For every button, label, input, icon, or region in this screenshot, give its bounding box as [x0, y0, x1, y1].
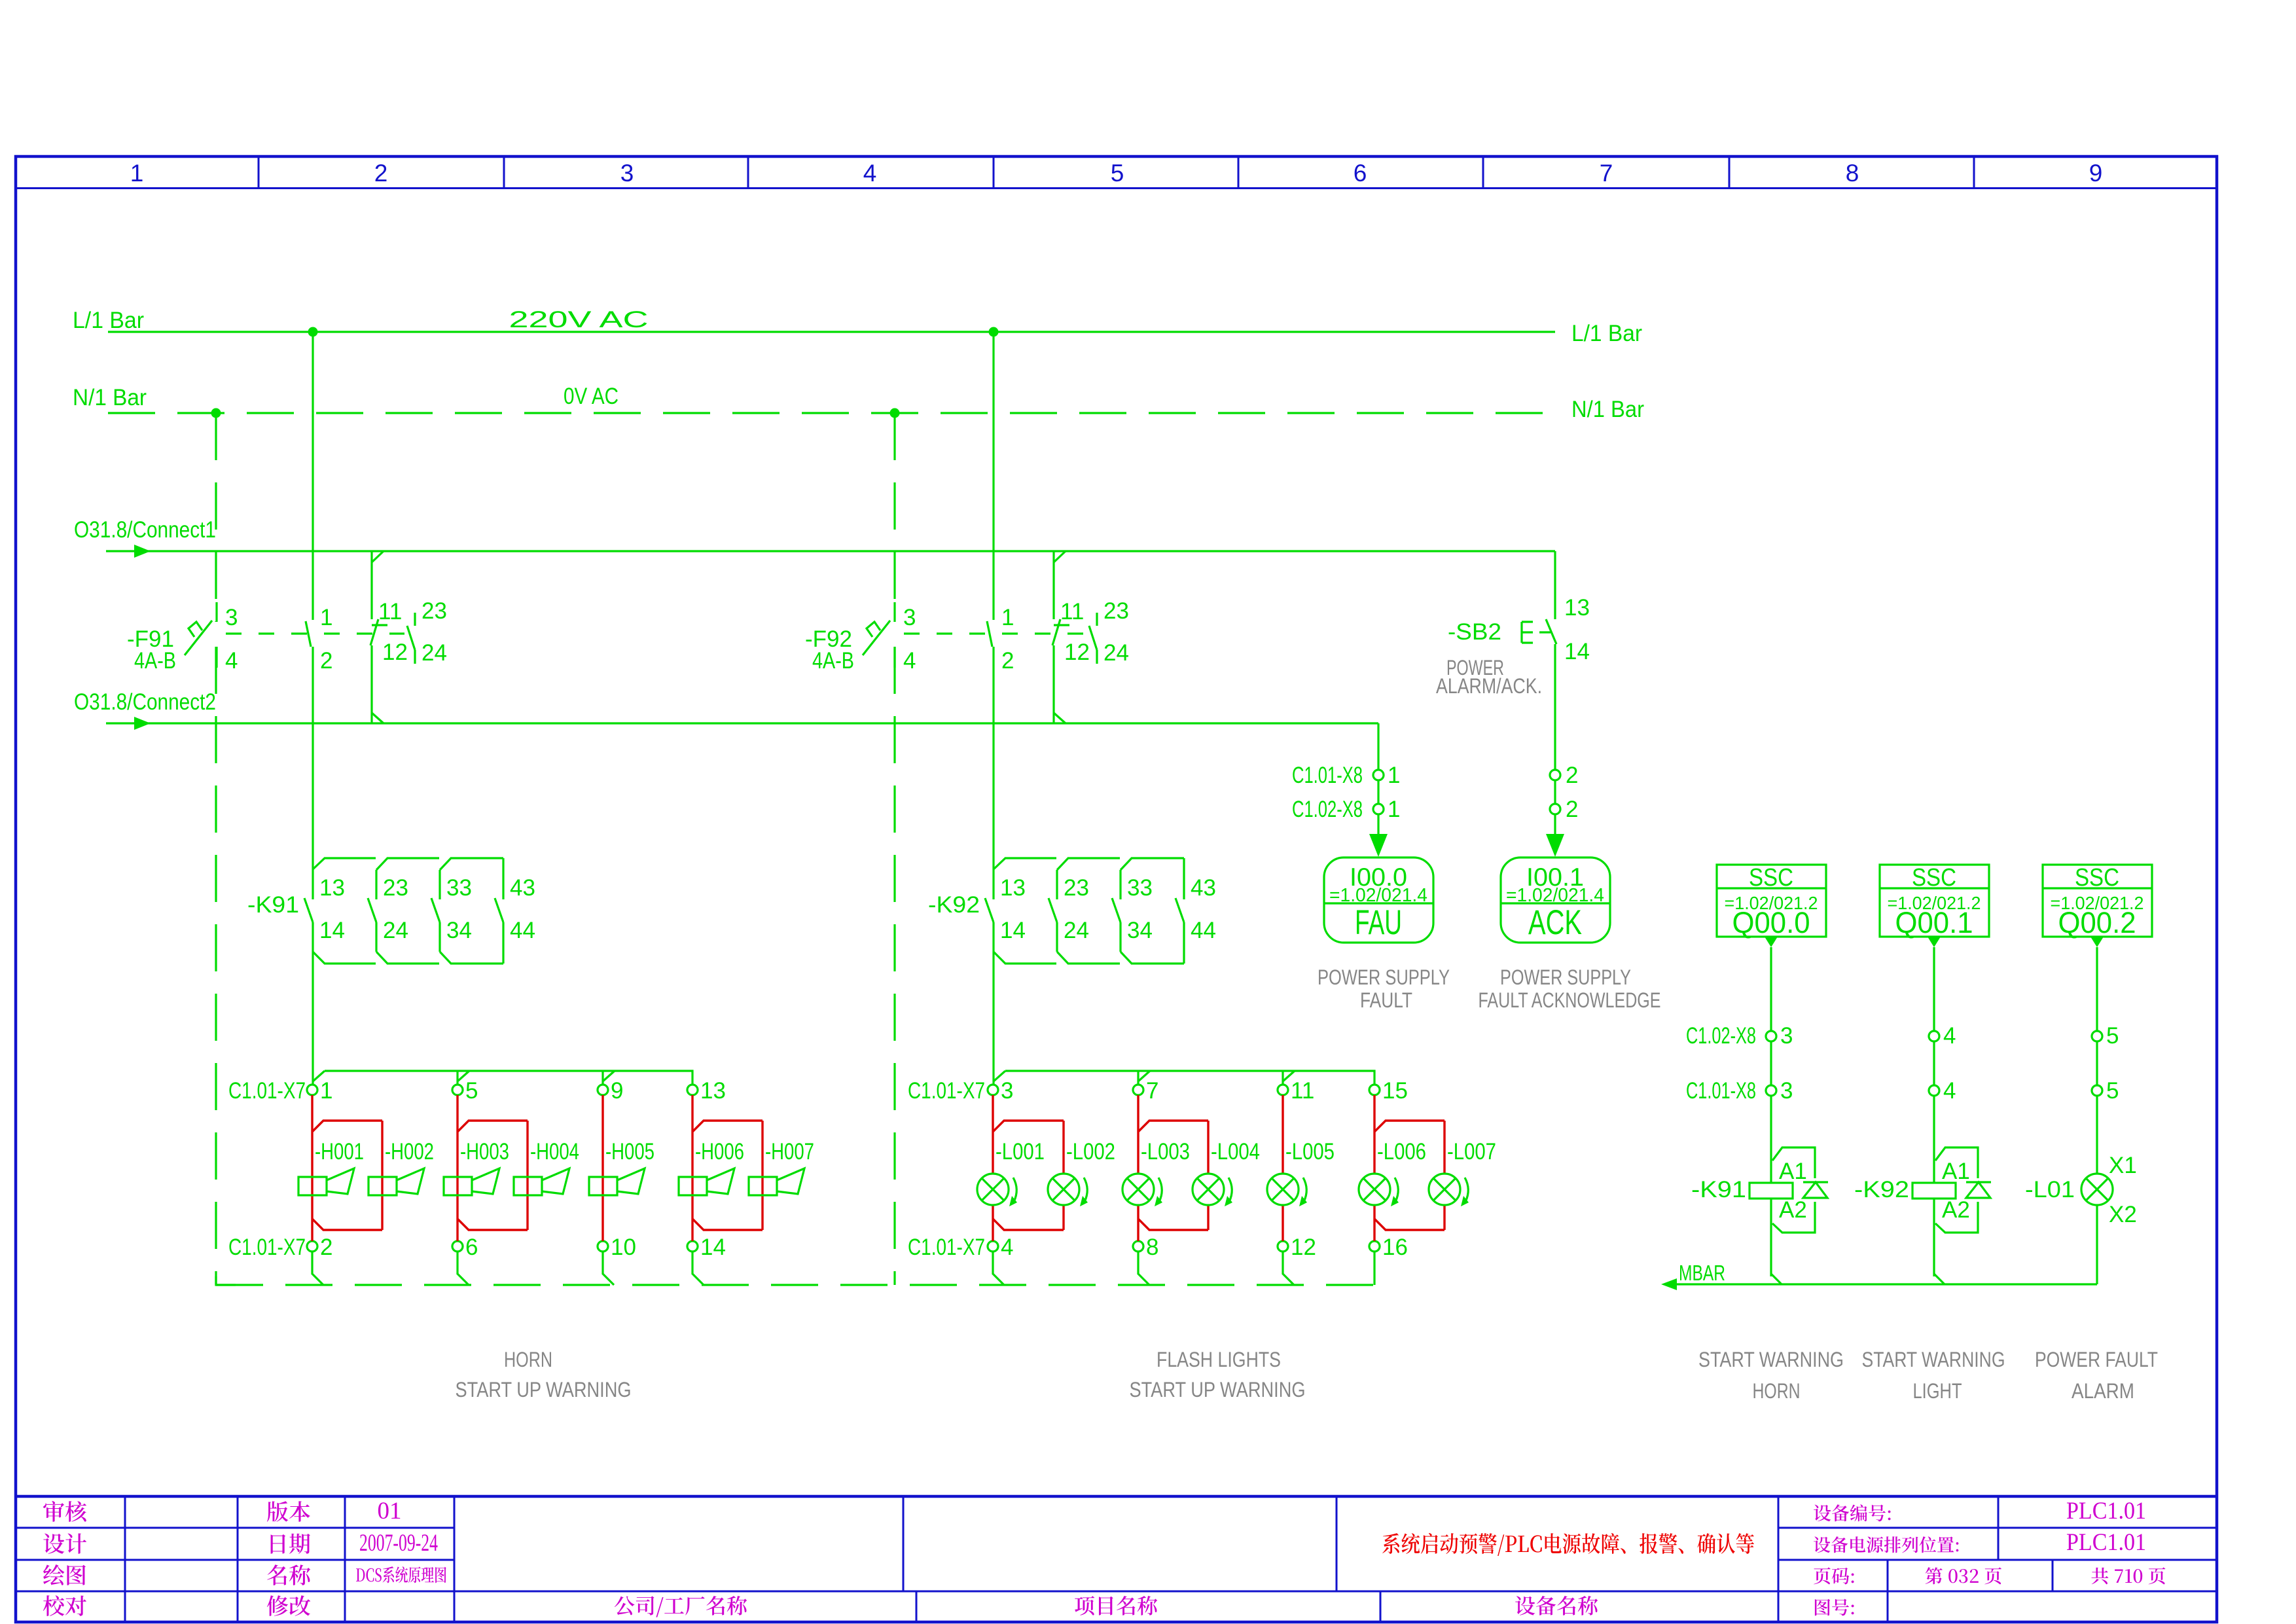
lamp L01 power fault	[2096, 1096, 2098, 1174]
contactor -K92 NO contact 23-24	[1056, 870, 1058, 899]
svg-text:C1.02-X8: C1.02-X8	[1686, 1023, 1756, 1049]
svg-text:HORN: HORN	[1753, 1379, 1801, 1403]
circuit breaker -F92 pole 3-4	[893, 602, 895, 622]
wire SSC output drop x=2955	[1933, 947, 1935, 1031]
svg-text:POWER FAULT: POWER FAULT	[2035, 1348, 2158, 1371]
svg-text:01: 01	[378, 1498, 402, 1525]
terminal C1.01-X7 pin 14	[687, 1241, 698, 1252]
svg-text:43: 43	[510, 875, 535, 901]
svg-text:3: 3	[620, 160, 634, 187]
svg-text:FAULT: FAULT	[1360, 988, 1412, 1012]
svg-text:11: 11	[1060, 599, 1084, 624]
svg-text:C1.01-X7: C1.01-X7	[908, 1078, 985, 1104]
PLC input block I00.1 ACK	[1501, 857, 1610, 943]
horn H003	[444, 1177, 472, 1195]
wire lamp feed 11 (red)	[1282, 1095, 1283, 1173]
pushbutton SB2 lead from Connect1	[1554, 551, 1556, 619]
contactor -K91 NO contact 23-24	[375, 870, 377, 899]
horn H006	[679, 1177, 707, 1195]
terminal C1.01-X7 pin 8	[1133, 1241, 1143, 1252]
wire SSC output drop x=2706	[1770, 947, 1772, 1031]
contactor -K92 NO contact 33-34	[1119, 870, 1121, 899]
lamp L001	[977, 1174, 1009, 1205]
wire horn feed top bus	[313, 1071, 692, 1085]
terminal C1.02-X8 pin 4	[1929, 1031, 1939, 1041]
svg-text:Q00.2: Q00.2	[2058, 906, 2136, 939]
contactor -K92 aux contact block top bridge	[994, 858, 1184, 870]
svg-text:-L005: -L005	[1285, 1139, 1335, 1164]
svg-text:44: 44	[510, 918, 535, 943]
terminal C1.01-X8 pin 3	[1766, 1085, 1776, 1096]
terminal C1.01-X7 pin 12	[1278, 1241, 1288, 1252]
svg-text:34: 34	[1127, 918, 1153, 943]
svg-text:34: 34	[446, 918, 472, 943]
contactor -K92 aux contact block bottom bridge	[994, 952, 1184, 964]
svg-text:33: 33	[446, 875, 472, 901]
PLC output block SSC Q00.1	[1880, 865, 1989, 937]
horn H005	[589, 1177, 617, 1195]
svg-text:4A-B: 4A-B	[134, 648, 176, 674]
wire horn feed 13 (red)	[691, 1095, 693, 1241]
svg-text:C1.02-X8: C1.02-X8	[1292, 797, 1363, 822]
svg-text:2: 2	[1566, 763, 1578, 788]
svg-text:SSC: SSC	[2075, 864, 2119, 892]
lamp L004	[1193, 1174, 1224, 1205]
svg-text:-H001: -H001	[315, 1139, 364, 1164]
svg-text:10: 10	[611, 1235, 636, 1260]
lamp L007	[1429, 1174, 1460, 1205]
svg-text:0V AC: 0V AC	[564, 384, 619, 409]
junction dot L rail / F92 feed	[989, 327, 999, 337]
wire horn feed 5 (red)	[456, 1095, 458, 1241]
svg-text:44: 44	[1191, 918, 1216, 943]
svg-text:START WARNING: START WARNING	[1698, 1348, 1844, 1371]
junction dot L rail / F91 feed	[308, 327, 318, 337]
svg-text:FAU: FAU	[1355, 903, 1402, 942]
svg-text:4: 4	[225, 648, 238, 674]
svg-text:-L007: -L007	[1447, 1139, 1496, 1164]
circuit breaker -F91 pole 1-2	[306, 621, 311, 647]
svg-text:24: 24	[422, 640, 447, 666]
svg-text:O31.8/Connect2: O31.8/Connect2	[74, 689, 216, 715]
breaker -F91 aux NO contact 23-24	[414, 613, 416, 626]
svg-text:8: 8	[1146, 1235, 1158, 1260]
horn H002	[368, 1177, 397, 1195]
wire N/1 Bar 0V AC rail (dashed)	[108, 412, 1556, 414]
svg-text:24: 24	[1103, 640, 1129, 666]
svg-text:-L006: -L006	[1377, 1139, 1426, 1164]
lamp L006	[1359, 1174, 1390, 1205]
frame column header strip	[14, 187, 2218, 189]
svg-text:24: 24	[383, 918, 408, 943]
svg-text:7: 7	[1600, 160, 1613, 187]
wire lamp feed 15 (red)	[1373, 1095, 1375, 1173]
wire 0V return bottom bus (dashed)	[216, 1284, 1374, 1286]
svg-text:A1: A1	[1942, 1159, 1970, 1184]
wire horn bottom stubs to 0V bus	[311, 1252, 313, 1274]
svg-text:3: 3	[1001, 1078, 1013, 1104]
wire to FAU block with arrow	[1377, 780, 1379, 804]
wire lamp feed 3 (red)	[992, 1095, 994, 1173]
terminal C1.01-X7 pin 1	[307, 1085, 317, 1095]
svg-text:-H007: -H007	[765, 1139, 814, 1164]
terminal C1.01-X7 pin 6	[452, 1241, 463, 1252]
svg-text:Q00.0: Q00.0	[1732, 906, 1810, 939]
relay coil K91 with suppressor diode	[1770, 1096, 1772, 1183]
svg-text:4A-B: 4A-B	[812, 648, 854, 674]
svg-text:A2: A2	[1779, 1197, 1807, 1223]
svg-text:1: 1	[1001, 605, 1014, 630]
svg-text:6: 6	[1354, 160, 1367, 187]
svg-text:-K91: -K91	[1691, 1177, 1746, 1202]
wire horn feed 1 (red)	[311, 1095, 313, 1241]
svg-text:5: 5	[2106, 1078, 2119, 1104]
wire flash lights feed top bus	[994, 1071, 1374, 1085]
wire L feed vertical x=1518 (F92/K92 branch)	[992, 332, 994, 620]
circuit breaker -F92 mechanical linkage (dashed)	[904, 632, 1086, 634]
horn H007	[749, 1177, 777, 1195]
terminal X8 pin 2 (lower)	[1550, 804, 1560, 814]
svg-text:-H003: -H003	[460, 1139, 509, 1164]
svg-text:X1: X1	[2109, 1153, 2137, 1178]
svg-text:-K92: -K92	[1854, 1177, 1909, 1202]
contactor -K91 NO contact 33-34	[439, 870, 440, 899]
svg-text:1: 1	[1388, 763, 1400, 788]
svg-text:C1.01-X7: C1.01-X7	[228, 1078, 306, 1104]
svg-text:A1: A1	[1779, 1159, 1807, 1184]
svg-text:POWER SUPPLY: POWER SUPPLY	[1318, 965, 1450, 989]
svg-text:9: 9	[2089, 160, 2103, 187]
title block right section labels	[1814, 1504, 1891, 1521]
contactor -K91 NO contact 13-14	[304, 898, 313, 922]
svg-text:LIGHT: LIGHT	[1913, 1379, 1962, 1403]
svg-text:SSC: SSC	[1749, 864, 1793, 892]
svg-text:4: 4	[1943, 1078, 1956, 1104]
svg-text:5: 5	[465, 1078, 478, 1104]
svg-text:43: 43	[1191, 875, 1216, 901]
svg-text:-L001: -L001	[996, 1139, 1045, 1164]
junction dot N rail / F91 branch	[211, 408, 221, 418]
terminal C1.01-X7 pin 9	[598, 1085, 608, 1095]
svg-text:-K91: -K91	[247, 892, 299, 918]
wire SB2 to ACK input with arrow	[1554, 780, 1556, 804]
contactor -K91 aux contact block top bridge	[313, 858, 503, 870]
svg-text:L/1 Bar: L/1 Bar	[73, 308, 144, 333]
pushbutton SB2 contact 13-14	[1546, 619, 1556, 644]
title block labels (Chinese)	[43, 1501, 86, 1522]
svg-text:8: 8	[1846, 160, 1859, 187]
svg-text:220V AC: 220V AC	[509, 307, 649, 333]
svg-text:4: 4	[903, 648, 916, 674]
svg-text:13: 13	[1000, 875, 1026, 901]
terminal C1.01-X7 pin 4	[988, 1241, 998, 1252]
svg-text:2: 2	[1566, 797, 1578, 822]
svg-text:-H006: -H006	[695, 1139, 744, 1164]
wire F92 aux 11-12 drop to Connect2	[1052, 645, 1054, 723]
svg-text:3: 3	[1780, 1023, 1793, 1049]
svg-text:C1.01-X8: C1.01-X8	[1292, 763, 1363, 788]
breaker -F92 aux NO contact 23-24	[1096, 613, 1098, 626]
wire flash bottom stubs to 0V bus	[992, 1252, 994, 1274]
terminal C1.01-X7 pin 10	[598, 1241, 608, 1252]
svg-text:4: 4	[863, 160, 877, 187]
lamp L003	[1122, 1174, 1154, 1205]
svg-text:5: 5	[1111, 160, 1124, 187]
contactor -K92 NO contact 43-44	[1183, 858, 1185, 899]
svg-text:N/1 Bar: N/1 Bar	[73, 385, 147, 410]
lamp L005	[1267, 1174, 1299, 1205]
svg-text:PLC1.01: PLC1.01	[2066, 1529, 2146, 1556]
junction dot N rail / F92 branch	[890, 408, 900, 418]
contactor -K91 aux contact block bottom bridge	[313, 952, 503, 964]
terminal C1.02-X8 pin 5	[2092, 1031, 2102, 1041]
svg-text:11: 11	[1291, 1078, 1314, 1104]
wire N feed vertical to F91 (dashed)	[215, 413, 217, 622]
svg-text:23: 23	[1103, 598, 1129, 624]
svg-text:14: 14	[700, 1235, 726, 1260]
svg-text:14: 14	[1564, 639, 1590, 664]
svg-text:-H002: -H002	[385, 1139, 434, 1164]
terminal C1.01-X8 pin 4	[1929, 1085, 1939, 1096]
circuit breaker -F91 mechanical linkage (dashed)	[226, 632, 404, 634]
svg-text:START UP WARNING: START UP WARNING	[456, 1378, 632, 1401]
svg-text:11: 11	[378, 599, 402, 624]
wire SSC output drop x=3204	[2096, 947, 2098, 1031]
drawing title (red)	[1382, 1533, 1754, 1556]
svg-text:3: 3	[225, 605, 238, 630]
svg-text:13: 13	[319, 875, 345, 901]
wire horn feed 9 (red)	[601, 1095, 603, 1241]
svg-text:1: 1	[320, 605, 332, 630]
svg-text:2: 2	[320, 1235, 332, 1260]
horn H001	[298, 1177, 327, 1195]
wire F91 aux 11-12 drop from Connect1	[370, 551, 372, 619]
wire lamp pair bridge L006-L007 (red)	[1374, 1121, 1444, 1132]
terminal X8 pin 2 (upper)	[1550, 770, 1560, 780]
svg-text:9: 9	[611, 1078, 623, 1104]
svg-text:X2: X2	[2109, 1202, 2137, 1227]
svg-text:2: 2	[1001, 648, 1014, 674]
svg-text:ALARM: ALARM	[2072, 1379, 2134, 1403]
svg-text:HORN: HORN	[504, 1348, 552, 1371]
horn H004	[514, 1177, 542, 1195]
svg-text:O31.8/Connect1: O31.8/Connect1	[74, 517, 216, 543]
svg-text:12: 12	[1291, 1235, 1316, 1260]
svg-text:3: 3	[1780, 1078, 1793, 1104]
svg-text:-L01: -L01	[2025, 1177, 2075, 1202]
wire horn pair bridge H003-H004 (red)	[457, 1121, 528, 1132]
svg-text:-K92: -K92	[928, 892, 980, 918]
wire between terminals x=2955	[1933, 1041, 1935, 1085]
terminal C1.01-X7 pin 16	[1369, 1241, 1380, 1252]
svg-text:33: 33	[1127, 875, 1153, 901]
terminal C1.01-X7 pin 11	[1278, 1085, 1288, 1095]
svg-text:-L002: -L002	[1066, 1139, 1115, 1164]
svg-text:4: 4	[1001, 1235, 1013, 1260]
wire between terminals x=3204	[2096, 1041, 2098, 1085]
svg-text:2007-09-24: 2007-09-24	[359, 1530, 438, 1557]
svg-text:-L003: -L003	[1141, 1139, 1190, 1164]
terminal C1.01-X7 pin 2	[307, 1241, 317, 1252]
wire F91 aux 11-12 drop to Connect2	[370, 645, 372, 723]
svg-text:15: 15	[1382, 1078, 1408, 1104]
title block	[14, 1495, 2218, 1498]
svg-text:24: 24	[1064, 918, 1089, 943]
wire lamp pair bridge L001-L002 (red)	[993, 1121, 1064, 1132]
svg-text:14: 14	[319, 918, 345, 943]
svg-text:3: 3	[903, 605, 916, 630]
wire horn pair bridge H001-H002 (red)	[312, 1121, 382, 1132]
breaker -F92 aux NC contact 11-12	[1054, 624, 1069, 626]
svg-text:ACK: ACK	[1528, 903, 1582, 942]
wire F92 aux 11-12 drop from Connect1	[1052, 551, 1054, 619]
svg-text:C1.01-X7: C1.01-X7	[228, 1235, 306, 1260]
circuit breaker -F91 pole 3-4	[215, 602, 217, 622]
terminal C1.01-X7 pin 5	[452, 1085, 463, 1095]
svg-text:7: 7	[1146, 1078, 1158, 1104]
svg-text:MBAR: MBAR	[1679, 1261, 1725, 1285]
svg-text:C1.01-X8: C1.01-X8	[1686, 1078, 1756, 1104]
wire O31.8/Connect2 with source arrow	[106, 722, 1378, 724]
terminal C1.01-X7 pin 7	[1133, 1085, 1143, 1095]
svg-text:ALARM/ACK.: ALARM/ACK.	[1436, 674, 1542, 698]
wire L/1 Bar 220V AC rail	[108, 331, 1555, 333]
PLC input block I00.0 FAU	[1324, 857, 1433, 943]
terminal C1.01-X8 pin 5	[2092, 1085, 2102, 1096]
svg-text:Q00.1: Q00.1	[1895, 906, 1973, 939]
wire lamp feed 7 (red)	[1137, 1095, 1139, 1173]
PLC output block SSC Q00.0	[1717, 865, 1826, 937]
wire lamp pair bridge L003-L004 (red)	[1138, 1121, 1208, 1132]
svg-text:16: 16	[1382, 1235, 1408, 1260]
PLC output block SSC Q00.2	[2043, 865, 2152, 937]
contactor -K92 NO contact 13-14	[985, 898, 994, 922]
relay coil K92 with suppressor diode	[1933, 1096, 1935, 1183]
svg-text:1: 1	[1388, 797, 1400, 822]
svg-text:2: 2	[320, 648, 332, 674]
svg-text:C1.01-X7: C1.01-X7	[908, 1235, 985, 1260]
wire O31.8/Connect1 with source arrow	[106, 550, 1555, 552]
wire horn pair bridge H006-H007 (red)	[692, 1121, 762, 1132]
svg-text:FAULT ACKNOWLEDGE: FAULT ACKNOWLEDGE	[1479, 988, 1661, 1012]
svg-text:12: 12	[382, 640, 408, 665]
wire MBAR bus with arrow	[1673, 1283, 2097, 1285]
wire N feed vertical to F92 (dashed)	[893, 413, 895, 622]
svg-text:START UP WARNING: START UP WARNING	[1130, 1378, 1306, 1401]
svg-text:23: 23	[1064, 875, 1089, 901]
svg-text:POWER SUPPLY: POWER SUPPLY	[1500, 965, 1631, 989]
svg-text:SSC: SSC	[1912, 864, 1956, 892]
svg-text:-H005: -H005	[605, 1139, 655, 1164]
wire Connect2 drop to FAU input	[1377, 723, 1379, 770]
svg-text:-L004: -L004	[1211, 1139, 1260, 1164]
svg-text:N/1 Bar: N/1 Bar	[1571, 397, 1644, 422]
terminal C1.01-X7 pin 3	[988, 1085, 998, 1095]
svg-text:23: 23	[383, 875, 408, 901]
lamp L002	[1048, 1174, 1079, 1205]
svg-text:23: 23	[422, 598, 447, 624]
svg-text:-H004: -H004	[530, 1139, 579, 1164]
svg-text:6: 6	[465, 1235, 478, 1260]
breaker -F91 aux NC contact 11-12	[372, 624, 387, 626]
wire L feed vertical x=478 (F91/K91 branch)	[312, 332, 314, 620]
svg-text:A2: A2	[1942, 1197, 1970, 1223]
wire 0V bus corner at N feed	[216, 1276, 236, 1285]
svg-text:1: 1	[320, 1078, 332, 1104]
pushbutton SB2 actuator	[1520, 622, 1522, 643]
svg-text:5: 5	[2106, 1023, 2119, 1049]
terminal C1.01-X7 pin 15	[1369, 1085, 1380, 1095]
contactor -K91 NO contact 43-44	[502, 858, 504, 899]
wire between terminals x=2706	[1770, 1041, 1772, 1085]
svg-text:-SB2: -SB2	[1448, 619, 1501, 645]
svg-text:L/1 Bar: L/1 Bar	[1571, 321, 1642, 346]
svg-text:FLASH LIGHTS: FLASH LIGHTS	[1157, 1348, 1281, 1371]
svg-text:12: 12	[1064, 640, 1090, 665]
terminal C1.02-X8 pin 3	[1766, 1031, 1776, 1041]
svg-text:START WARNING: START WARNING	[1862, 1348, 2005, 1371]
svg-text:PLC1.01: PLC1.01	[2066, 1498, 2146, 1525]
svg-text:13: 13	[1564, 595, 1590, 621]
svg-text:14: 14	[1000, 918, 1026, 943]
svg-text:13: 13	[700, 1078, 726, 1104]
svg-text:1: 1	[130, 160, 144, 187]
terminal C1.01-X7 pin 13	[687, 1085, 698, 1095]
circuit breaker -F92 pole 1-2	[987, 621, 992, 647]
svg-text:2: 2	[374, 160, 388, 187]
svg-text:4: 4	[1943, 1023, 1956, 1049]
